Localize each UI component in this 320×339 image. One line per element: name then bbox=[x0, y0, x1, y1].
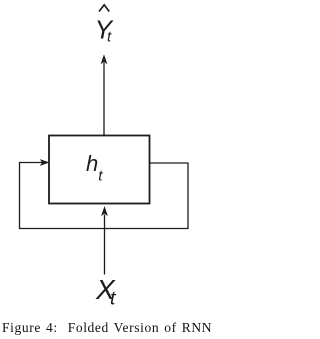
arrow from h_t box to Y_t bbox=[101, 55, 107, 135]
box h_t (RNN hidden state) bbox=[49, 136, 150, 204]
label h_t inside box bbox=[86, 151, 103, 185]
label X_t (input) bbox=[95, 274, 117, 309]
input arrow from X_t to box bbox=[102, 207, 108, 275]
svg-text:t: t bbox=[98, 167, 103, 184]
arrowhead into left side of box bbox=[41, 160, 49, 166]
svg-text:h: h bbox=[86, 151, 98, 176]
label Y_t (output, with hat) bbox=[95, 5, 114, 45]
recurrent feedback loop wire bbox=[20, 163, 189, 229]
svg-text:Figure 4: Folded Version of R: Figure 4: Folded Version of RNN bbox=[2, 320, 212, 335]
svg-text:t: t bbox=[110, 287, 117, 309]
